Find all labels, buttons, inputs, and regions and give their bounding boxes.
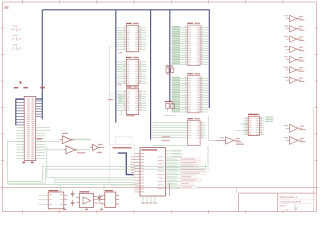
gate T10 bbox=[60, 136, 75, 144]
svg-text:flying_beamer_v: flying_beamer_v bbox=[280, 196, 298, 199]
bus entries right of connector bbox=[36, 101, 43, 117]
T12 below text bbox=[97, 152, 103, 153]
title block small divider bbox=[294, 203, 296, 211]
capacitor C5 bbox=[98, 195, 101, 202]
svg-text:2/27/2008 4:16:48 PM: 2/27/2008 4:16:48 PM bbox=[280, 201, 302, 203]
short wire near title block bbox=[236, 187, 238, 194]
IC5 driver bbox=[172, 73, 209, 113]
title block left edge bbox=[238, 193, 240, 212]
long green nets bottom bbox=[6, 142, 208, 193]
frame inner right line bbox=[313, 108, 315, 212]
svg-text:Sheet:: Sheet: bbox=[280, 205, 287, 208]
gate T8a bbox=[284, 124, 305, 132]
title block divider vertical bbox=[277, 193, 279, 212]
gate T7 bbox=[284, 77, 304, 83]
T10 output net label bbox=[74, 139, 91, 141]
connector pin grid bbox=[27, 98, 34, 159]
diode pair D2 bbox=[12, 35, 22, 41]
MCU right net label rows bbox=[165, 158, 209, 189]
diode pair D3 bbox=[12, 44, 22, 50]
gate T4 bbox=[284, 46, 304, 52]
connector right net stubs bbox=[36, 128, 50, 159]
T9 below text bbox=[236, 144, 244, 145]
net below IC6 bbox=[152, 144, 187, 146]
gate T6 bbox=[284, 67, 304, 73]
net label box a bbox=[162, 136, 171, 137]
bus right of connector bbox=[41, 99, 43, 119]
T10 name bbox=[62, 133, 68, 134]
frame divider line bbox=[3, 186, 317, 188]
net label on T10 wire bbox=[37, 138, 42, 139]
connector left net stubs bbox=[16, 128, 24, 159]
gate T11 bbox=[64, 146, 79, 154]
title block row line 1 bbox=[278, 198, 317, 200]
connector ref mark bbox=[20, 81, 22, 84]
bus left vertical x42 bbox=[41, 10, 43, 99]
bus vertical x150 bbox=[150, 10, 152, 140]
MCU bottom stubs and grounds bbox=[141, 196, 156, 203]
gate T1 bbox=[284, 15, 304, 21]
SV2 header text bbox=[113, 147, 132, 149]
IC3 shift register bbox=[117, 86, 147, 114]
faint net corner top bbox=[109, 45, 114, 47]
IC6 latch bbox=[187, 118, 205, 145]
net label 1a mid bbox=[23, 87, 28, 89]
frame column ticks bbox=[23, 0, 283, 213]
green labels left of IC3 bbox=[118, 95, 122, 103]
net into T10 bbox=[36, 141, 60, 143]
faint net stub mid bbox=[109, 93, 114, 95]
frame row ticks bbox=[1, 28, 318, 187]
T12 output wire bbox=[98, 147, 104, 149]
IC10 opamp box bbox=[76, 191, 102, 207]
T12 upper text bbox=[98, 144, 103, 145]
net label below IC3 bbox=[126, 115, 134, 117]
IC3 ref text bbox=[108, 99, 114, 100]
connector SV1 hatched body bbox=[24, 97, 36, 161]
faint long net vertical x109 bbox=[108, 46, 110, 145]
IC2 shift register bbox=[117, 57, 147, 86]
bus vertical x116 bbox=[115, 10, 117, 123]
MCU faint box small bbox=[115, 137, 132, 145]
net into T11 bbox=[36, 149, 64, 151]
IC9 regulator bbox=[39, 190, 68, 209]
vcc mark below IC2 bbox=[118, 84, 121, 86]
gate T5 bbox=[284, 56, 304, 62]
net connector to bottom bbox=[36, 147, 47, 178]
T10 output stub bbox=[73, 139, 75, 141]
bus vertical x209 bbox=[208, 10, 210, 108]
gate T8b bbox=[284, 136, 305, 144]
IC7 right green labels bbox=[265, 116, 273, 122]
bus vertical x170 bbox=[169, 10, 171, 103]
gate T9 bbox=[216, 137, 242, 144]
net label 1a left bbox=[14, 87, 18, 89]
red wire down from labels bbox=[168, 183, 170, 196]
gate T2 bbox=[284, 26, 304, 32]
gate T3 bbox=[284, 36, 304, 42]
green labels left of IC1 bbox=[118, 30, 123, 38]
ground symbols bottom bbox=[63, 208, 103, 210]
long wire into IC7 bbox=[235, 130, 249, 132]
IC6 left bus-entry nets bbox=[152, 123, 187, 138]
green labels left of IC2 bbox=[118, 64, 123, 72]
MCU faint left box SV2 bbox=[110, 145, 135, 186]
net label box b bbox=[162, 140, 171, 141]
IC1 shift register bbox=[117, 23, 147, 52]
MCU upper right nets bbox=[165, 150, 181, 157]
connector pin label 1b bbox=[31, 162, 34, 164]
bus J into MCU bbox=[118, 153, 134, 175]
capacitors C3 C4 bbox=[71, 191, 74, 207]
IC11 small box bbox=[101, 190, 119, 207]
connector pin label 1a bbox=[22, 162, 25, 164]
IC7 name text bbox=[248, 114, 257, 115]
vcc mark below IC1 bbox=[119, 52, 122, 54]
net label 1a right bbox=[40, 87, 45, 89]
IC7 comparator bbox=[243, 114, 264, 136]
net T11 to T12 bbox=[77, 149, 91, 151]
title block row line 2 bbox=[278, 202, 317, 204]
T11 below text bbox=[77, 152, 86, 153]
diode pair D1 bbox=[12, 26, 22, 32]
gate T12 bbox=[90, 144, 98, 150]
bus entries left of connector bbox=[16, 100, 24, 125]
SV2 right pin stubs bbox=[131, 157, 135, 175]
capacitor pair C1 C2 bbox=[164, 101, 176, 116]
frame corner label bbox=[4, 6, 8, 9]
net from IC6 right down to T9 bbox=[208, 116, 225, 141]
capacitor pair C6 C7 between IC4 and IC5 bbox=[166, 64, 174, 75]
title block top edge bbox=[239, 192, 317, 194]
wire into IC7 mid bbox=[240, 123, 248, 125]
MCU IC8 MEGA8 bbox=[134, 148, 165, 197]
wire below IC3 bbox=[119, 110, 127, 114]
bus top horizontal bbox=[42, 9, 209, 11]
bus jog to x15 bbox=[16, 99, 43, 125]
IC4 driver bbox=[172, 23, 209, 66]
